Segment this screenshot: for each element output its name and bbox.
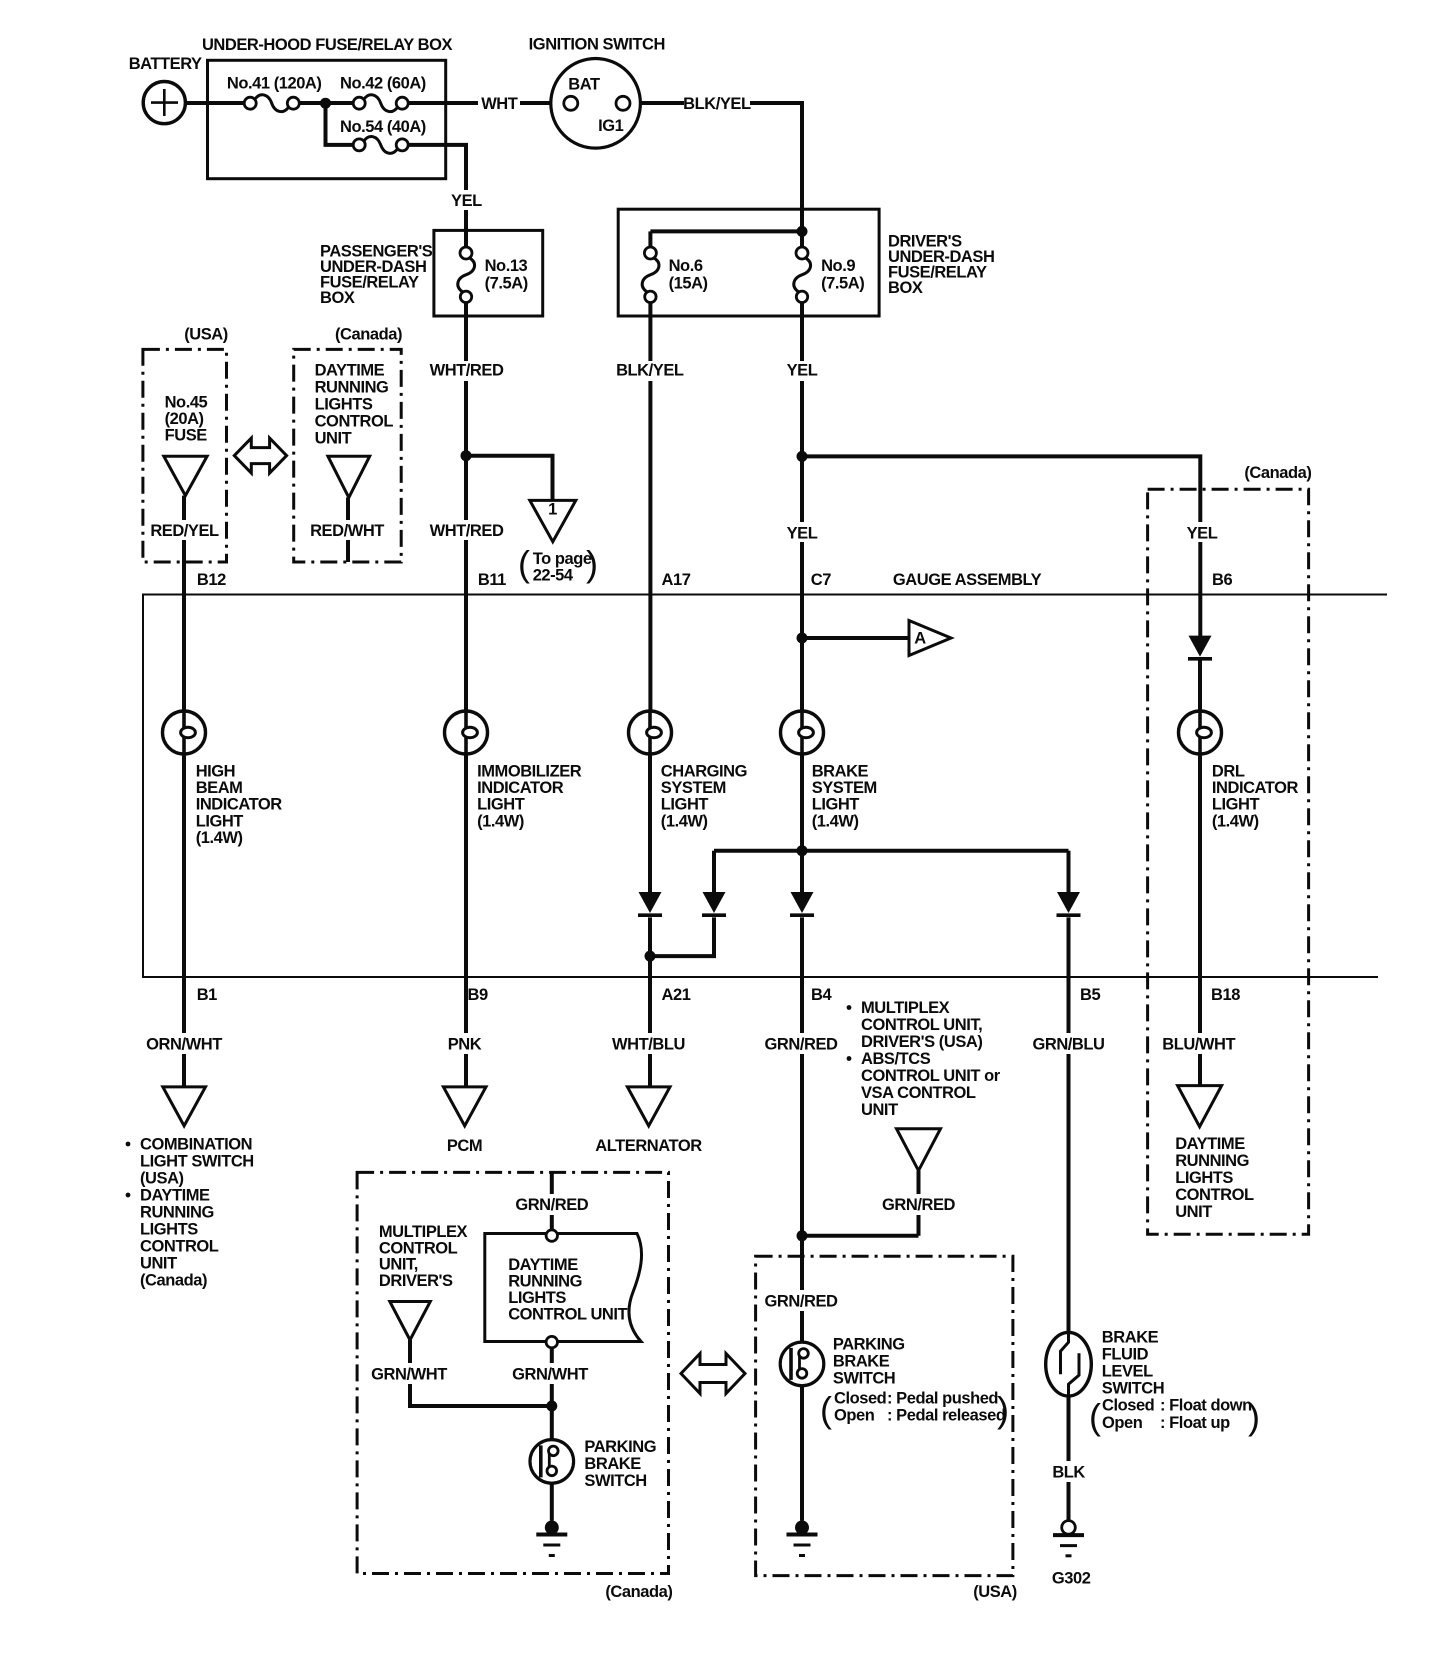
svg-text:DAYTIME: DAYTIME (315, 362, 385, 380)
svg-text:YEL: YEL (787, 362, 818, 380)
svg-text:WHT/RED: WHT/RED (430, 362, 504, 380)
svg-text:(USA): (USA) (184, 326, 228, 344)
svg-text:WHT/RED: WHT/RED (430, 522, 504, 540)
svg-text:VSA CONTROL: VSA CONTROL (861, 1084, 976, 1102)
svg-text:YEL: YEL (1187, 525, 1218, 543)
svg-text:FUSE: FUSE (165, 427, 208, 445)
svg-text:LIGHT: LIGHT (196, 812, 244, 830)
svg-text:CONTROL UNIT,: CONTROL UNIT, (861, 1016, 982, 1034)
svg-text:CONTROL: CONTROL (379, 1239, 458, 1257)
svg-text:RUNNING: RUNNING (140, 1204, 214, 1222)
svg-text:RUNNING: RUNNING (1175, 1152, 1249, 1170)
svg-text:(1.4W): (1.4W) (661, 812, 708, 830)
svg-text:LIGHT: LIGHT (661, 796, 709, 814)
svg-text:DAYTIME: DAYTIME (508, 1256, 578, 1274)
svg-text:DRL: DRL (1212, 763, 1245, 781)
svg-text:LIGHT: LIGHT (477, 796, 525, 814)
svg-text:: Float up: : Float up (1160, 1414, 1230, 1432)
svg-text:GRN/BLU: GRN/BLU (1032, 1036, 1104, 1054)
svg-text:ALTERNATOR: ALTERNATOR (595, 1137, 702, 1155)
svg-text:YEL: YEL (451, 192, 482, 210)
svg-text:No.9: No.9 (821, 257, 855, 275)
svg-text:GRN/RED: GRN/RED (765, 1293, 838, 1311)
svg-text:SWITCH: SWITCH (1102, 1380, 1164, 1398)
svg-text:(7.5A): (7.5A) (485, 275, 528, 293)
svg-text:MULTIPLEX: MULTIPLEX (861, 999, 950, 1017)
svg-text:C7: C7 (811, 571, 831, 589)
svg-text:(: ( (518, 543, 530, 584)
svg-text:No.45: No.45 (165, 394, 208, 412)
svg-text:PARKING: PARKING (584, 1438, 656, 1456)
svg-text:INDICATOR: INDICATOR (1212, 779, 1299, 797)
svg-text:LIGHTS: LIGHTS (1175, 1169, 1233, 1187)
svg-text:(Canada): (Canada) (1244, 464, 1311, 482)
svg-text:CONTROL: CONTROL (140, 1238, 219, 1256)
svg-text:RUNNING: RUNNING (508, 1273, 582, 1291)
svg-text:A: A (914, 630, 926, 648)
svg-text:UNIT: UNIT (861, 1101, 898, 1119)
svg-text:HIGH: HIGH (196, 763, 235, 781)
svg-text:No.6: No.6 (669, 257, 703, 275)
svg-text:SWITCH: SWITCH (584, 1472, 646, 1490)
svg-text:BLU/WHT: BLU/WHT (1162, 1036, 1235, 1054)
svg-text:IG1: IG1 (598, 117, 624, 135)
svg-text:COMBINATION: COMBINATION (140, 1136, 252, 1154)
svg-text:(USA): (USA) (973, 1583, 1017, 1601)
svg-text:UNIT: UNIT (315, 430, 352, 448)
svg-text:1: 1 (548, 501, 557, 519)
svg-text:LIGHT: LIGHT (812, 796, 860, 814)
svg-text:BLK/YEL: BLK/YEL (683, 95, 751, 113)
svg-text:(1.4W): (1.4W) (1212, 812, 1259, 830)
svg-text:CONTROL UNIT or: CONTROL UNIT or (861, 1067, 1001, 1085)
svg-text:UNDER-HOOD FUSE/RELAY BOX: UNDER-HOOD FUSE/RELAY BOX (202, 36, 452, 54)
svg-text:CONTROL UNIT: CONTROL UNIT (508, 1306, 627, 1324)
svg-text:ORN/WHT: ORN/WHT (146, 1036, 222, 1054)
svg-text:(Canada): (Canada) (335, 326, 402, 344)
svg-text:BLK: BLK (1052, 1464, 1085, 1482)
svg-text:(7.5A): (7.5A) (821, 275, 864, 293)
svg-text:B1: B1 (197, 986, 217, 1004)
svg-text:IGNITION SWITCH: IGNITION SWITCH (529, 36, 665, 54)
svg-text:RED/WHT: RED/WHT (310, 522, 384, 540)
svg-text:): ) (997, 1389, 1009, 1430)
svg-text:(1.4W): (1.4W) (477, 812, 524, 830)
svg-text:GRN/WHT: GRN/WHT (512, 1366, 588, 1384)
svg-text:YEL: YEL (787, 525, 818, 543)
svg-text:Open: Open (1102, 1414, 1143, 1432)
svg-text:: Pedal pushed: : Pedal pushed (887, 1389, 998, 1407)
svg-text:LIGHT: LIGHT (1212, 796, 1260, 814)
svg-text:BLK/YEL: BLK/YEL (616, 362, 684, 380)
svg-text:LEVEL: LEVEL (1102, 1363, 1153, 1381)
svg-text:IMMOBILIZER: IMMOBILIZER (477, 763, 582, 781)
svg-text:BEAM: BEAM (196, 779, 243, 797)
svg-text:CHARGING: CHARGING (661, 763, 747, 781)
svg-text:B12: B12 (197, 571, 226, 589)
svg-text:BRAKE: BRAKE (812, 763, 869, 781)
svg-text:PNK: PNK (448, 1036, 482, 1054)
svg-text:(USA): (USA) (140, 1170, 184, 1188)
svg-text:(Canada): (Canada) (140, 1272, 207, 1290)
svg-text:LIGHTS: LIGHTS (140, 1221, 198, 1239)
svg-text:BRAKE: BRAKE (1102, 1329, 1159, 1347)
svg-text:GRN/RED: GRN/RED (882, 1196, 955, 1214)
svg-text:22-54: 22-54 (533, 567, 574, 585)
svg-text:CONTROL: CONTROL (315, 413, 394, 431)
svg-text:INDICATOR: INDICATOR (196, 796, 283, 814)
svg-text:No.13: No.13 (485, 257, 528, 275)
svg-text:PCM: PCM (447, 1137, 482, 1155)
svg-text:(: ( (1089, 1396, 1101, 1437)
svg-text:UNIT,: UNIT, (379, 1256, 418, 1274)
svg-text:B9: B9 (468, 986, 488, 1004)
svg-text:SYSTEM: SYSTEM (661, 779, 726, 797)
svg-text:(20A): (20A) (165, 410, 204, 428)
svg-text:B6: B6 (1212, 571, 1232, 589)
svg-text:BOX: BOX (320, 289, 355, 307)
svg-text:DAYTIME: DAYTIME (1175, 1135, 1245, 1153)
svg-text:(1.4W): (1.4W) (812, 812, 859, 830)
svg-text:B5: B5 (1080, 986, 1100, 1004)
svg-text:SYSTEM: SYSTEM (812, 779, 877, 797)
svg-text:DRIVER'S (USA): DRIVER'S (USA) (861, 1033, 982, 1051)
svg-text:LIGHTS: LIGHTS (508, 1289, 566, 1307)
svg-text:B18: B18 (1211, 986, 1240, 1004)
svg-text:): ) (1248, 1396, 1260, 1437)
svg-text:BRAKE: BRAKE (584, 1455, 641, 1473)
svg-text:GAUGE ASSEMBLY: GAUGE ASSEMBLY (893, 571, 1042, 589)
svg-text:MULTIPLEX: MULTIPLEX (379, 1223, 468, 1241)
svg-text:PARKING: PARKING (833, 1336, 905, 1354)
svg-text:No.54 (40A): No.54 (40A) (340, 118, 426, 136)
svg-text:(Canada): (Canada) (605, 1583, 672, 1601)
svg-text:GRN/RED: GRN/RED (765, 1036, 838, 1054)
svg-text:: Pedal released: : Pedal released (887, 1407, 1005, 1425)
svg-text:WHT: WHT (481, 95, 518, 113)
svg-text:A21: A21 (662, 986, 691, 1004)
svg-text:G302: G302 (1052, 1570, 1091, 1588)
svg-text:No.41 (120A): No.41 (120A) (227, 75, 322, 93)
svg-text:LIGHTS: LIGHTS (315, 396, 373, 414)
svg-text:Closed: Closed (834, 1389, 886, 1407)
svg-text:FLUID: FLUID (1102, 1346, 1149, 1364)
svg-text:UNIT: UNIT (1175, 1203, 1212, 1221)
svg-text:): ) (586, 543, 598, 584)
svg-text:B4: B4 (811, 986, 832, 1004)
svg-text:BOX: BOX (888, 279, 923, 297)
svg-text:(1.4W): (1.4W) (196, 829, 243, 847)
svg-text:CONTROL: CONTROL (1175, 1186, 1254, 1204)
svg-text:Open: Open (834, 1407, 875, 1425)
svg-text:ABS/TCS: ABS/TCS (861, 1050, 931, 1068)
svg-text:DAYTIME: DAYTIME (140, 1187, 210, 1205)
svg-text:DRIVER'S: DRIVER'S (379, 1272, 453, 1290)
svg-text:RUNNING: RUNNING (315, 379, 389, 397)
svg-text:UNIT: UNIT (140, 1255, 177, 1273)
svg-text:INDICATOR: INDICATOR (477, 779, 564, 797)
svg-text:BRAKE: BRAKE (833, 1353, 890, 1371)
svg-text:RED/YEL: RED/YEL (150, 522, 219, 540)
svg-text:GRN/RED: GRN/RED (515, 1196, 588, 1214)
svg-text:(15A): (15A) (669, 275, 708, 293)
svg-text:Closed: Closed (1102, 1397, 1154, 1415)
svg-text:SWITCH: SWITCH (833, 1370, 895, 1388)
svg-text:A17: A17 (662, 571, 691, 589)
svg-text:WHT/BLU: WHT/BLU (612, 1036, 685, 1054)
svg-text:BAT: BAT (568, 76, 600, 94)
svg-text:LIGHT SWITCH: LIGHT SWITCH (140, 1153, 254, 1171)
svg-text:No.42 (60A): No.42 (60A) (340, 75, 426, 93)
svg-text:B11: B11 (478, 571, 506, 589)
svg-text:BATTERY: BATTERY (129, 55, 202, 73)
svg-text:: Float down: : Float down (1160, 1397, 1252, 1415)
svg-text:To page: To page (533, 550, 592, 568)
svg-text:(: ( (820, 1389, 832, 1430)
svg-text:GRN/WHT: GRN/WHT (371, 1366, 447, 1384)
